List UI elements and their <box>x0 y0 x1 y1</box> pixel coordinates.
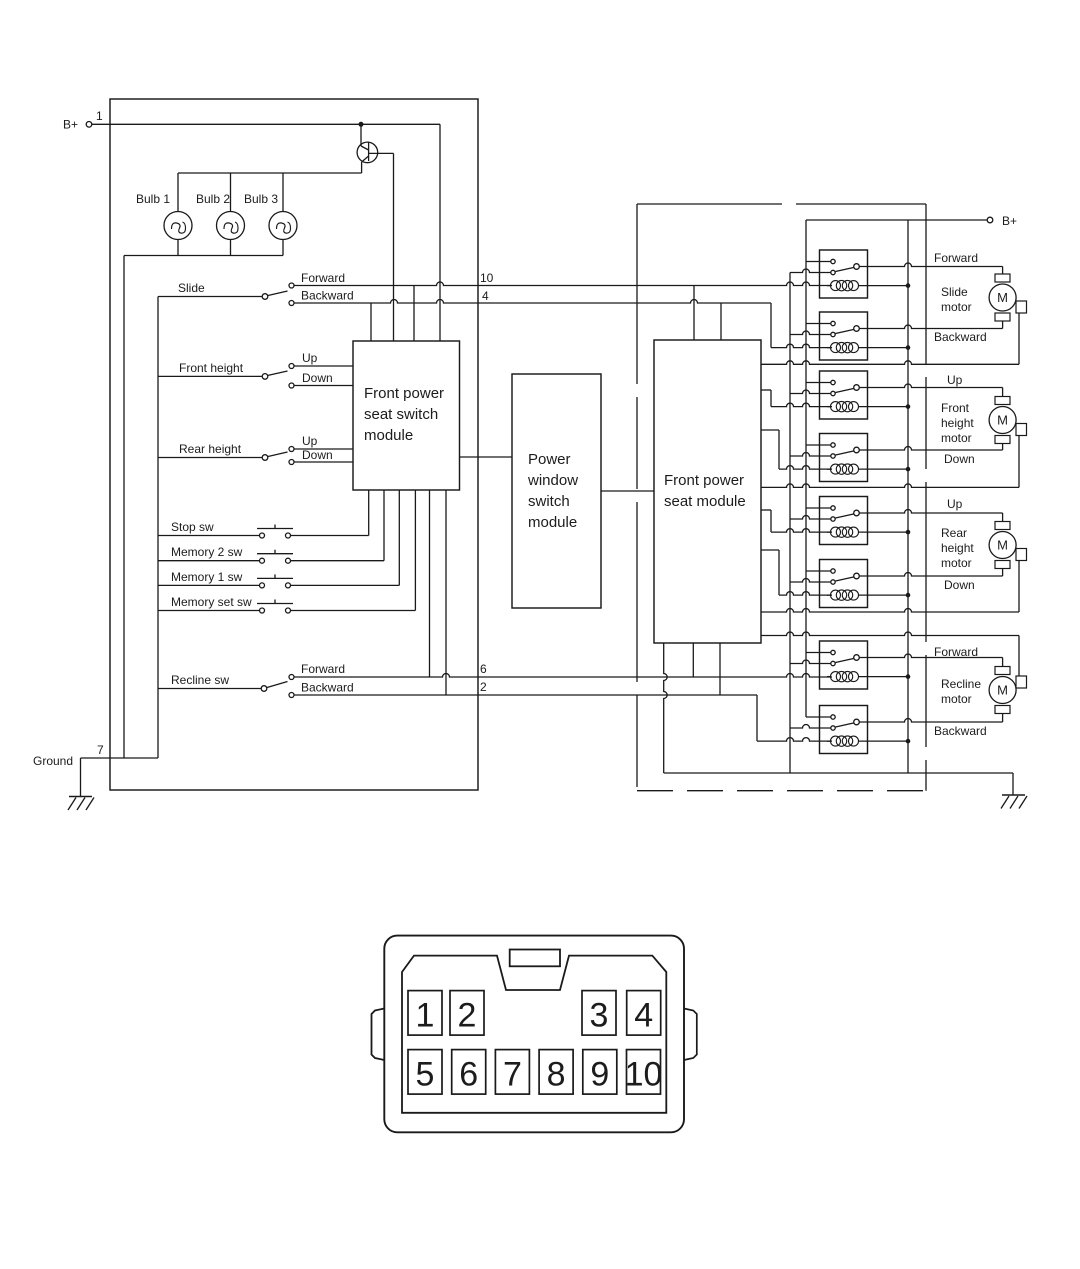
wire - backward drop to switch module <box>370 303 372 341</box>
svg-text:Backward: Backward <box>934 330 987 344</box>
svg-text:10: 10 <box>480 271 494 285</box>
pin 2 cavity <box>450 991 484 1036</box>
wire - U3 to relay K3 coil <box>761 390 832 407</box>
wire - bulb supply bus <box>178 172 362 174</box>
wire - motor terminal drop <box>1002 513 1004 522</box>
wire - relay K6 output to motor <box>859 573 1002 576</box>
svg-text:Down: Down <box>944 452 975 466</box>
wire - forward drop to seat module <box>693 286 695 341</box>
svg-text:Down: Down <box>944 578 975 592</box>
svg-text:M: M <box>997 683 1008 698</box>
svg-text:Bulb 3: Bulb 3 <box>244 192 278 206</box>
svg-text:Forward: Forward <box>301 662 345 676</box>
pin 9 cavity <box>583 1050 617 1095</box>
wire - B+ relay supply bus <box>806 220 987 717</box>
pin 3 cavity <box>582 991 616 1036</box>
pin 6 cavity <box>452 1050 486 1095</box>
svg-text:window: window <box>527 472 578 489</box>
pin 7 cavity <box>495 1050 529 1095</box>
svg-text:3: 3 <box>590 997 609 1035</box>
svg-text:Backward: Backward <box>934 724 987 738</box>
svg-text:9: 9 <box>590 1056 609 1094</box>
connector - 10 pin (view) <box>372 936 697 1133</box>
wire - relay K7 output to motor <box>859 654 1002 658</box>
svg-text:Front power: Front power <box>364 385 444 402</box>
svg-text:Forward: Forward <box>934 645 978 659</box>
svg-text:4: 4 <box>482 289 489 303</box>
svg-text:Ground: Ground <box>33 754 73 768</box>
switch - Memory 1 sw <box>158 490 399 588</box>
node B+ (right battery terminal) <box>987 214 1017 228</box>
wire - front height down to module <box>295 385 354 387</box>
switch - Memory set sw <box>158 490 415 613</box>
svg-text:Front height: Front height <box>179 361 244 375</box>
svg-text:Bulb 2: Bulb 2 <box>196 192 230 206</box>
svg-text:Up: Up <box>302 434 318 448</box>
wire - motor terminal drop <box>1002 569 1004 577</box>
svg-text:4: 4 <box>634 997 653 1035</box>
svg-text:7: 7 <box>97 743 104 757</box>
wire - slide forward (pin 10) to relay K1 coil <box>295 282 833 285</box>
label Up (rear height) <box>302 434 318 448</box>
svg-text:height: height <box>941 541 974 555</box>
svg-text:2: 2 <box>458 997 477 1035</box>
label Backward <box>934 724 987 738</box>
wire - motor terminal drop <box>1002 714 1004 723</box>
wire - relay ground bus <box>789 273 791 774</box>
svg-text:Backward: Backward <box>301 289 354 303</box>
wire - rear height motor sense line <box>761 560 1019 612</box>
svg-text:M: M <box>997 413 1008 428</box>
svg-text:1: 1 <box>96 109 103 123</box>
svg-text:motor: motor <box>941 692 972 706</box>
svg-text:motor: motor <box>941 300 972 314</box>
wire - B+ feed line <box>92 122 440 126</box>
svg-text:Memory set sw: Memory set sw <box>171 595 252 609</box>
label Backward (recline switch) <box>301 681 354 695</box>
pin 8 cavity <box>539 1050 573 1095</box>
wire - outer switch assembly box <box>110 99 478 790</box>
svg-text:Forward: Forward <box>934 251 978 265</box>
svg-text:motor: motor <box>941 431 972 445</box>
wire - recline backward riser to switch module <box>445 490 447 695</box>
svg-text:10: 10 <box>625 1056 663 1094</box>
bulb B2 <box>196 173 245 256</box>
wire - U3 to relay K6 coil <box>761 550 832 595</box>
wire - ground lead (pin 7) <box>81 743 159 797</box>
label Slide motor <box>941 285 972 314</box>
wire - U3 pin to recline backward line <box>719 643 721 695</box>
wire - U3 pin to recline forward line <box>692 643 694 677</box>
svg-text:seat module: seat module <box>664 493 746 510</box>
wire - backward drop to seat module <box>720 303 722 340</box>
svg-text:Memory 2 sw: Memory 2 sw <box>171 545 243 559</box>
switch - Stop sw <box>158 490 369 538</box>
wire - relay K5 output to motor <box>859 510 1002 513</box>
svg-text:6: 6 <box>459 1056 478 1094</box>
svg-text:2: 2 <box>480 680 487 694</box>
svg-text:M: M <box>997 290 1008 305</box>
label Down <box>944 578 975 592</box>
wire - recline motor sense line <box>761 632 1019 676</box>
relay K8 <box>790 706 910 754</box>
wire - motor terminal drop <box>1002 444 1004 451</box>
svg-text:Up: Up <box>947 497 963 511</box>
pin 10 cavity <box>625 1050 663 1095</box>
motor M4 - Recline motor <box>989 667 1026 714</box>
label Up (front height) <box>302 351 318 365</box>
wire - recline forward riser to switch module <box>429 490 431 677</box>
label Down <box>944 452 975 466</box>
svg-text:5: 5 <box>416 1056 435 1094</box>
wire - relay K8 output to motor <box>859 719 1002 723</box>
pin 5 cavity <box>408 1050 442 1095</box>
label pin 2 <box>480 680 487 694</box>
svg-text:Slide: Slide <box>941 285 968 299</box>
transistor Q1 <box>357 124 378 173</box>
svg-text:Stop sw: Stop sw <box>171 520 214 534</box>
label Forward (slide switch) <box>301 271 345 285</box>
motor M2 - Front height motor <box>989 397 1026 444</box>
wire - relay coil return bus <box>907 220 909 773</box>
svg-text:switch: switch <box>528 493 570 510</box>
svg-text:B+: B+ <box>63 118 78 132</box>
svg-text:Up: Up <box>947 373 963 387</box>
wire - recline backward (pin 2) to relay K8 coil <box>295 695 833 741</box>
label pin 6 <box>480 662 487 676</box>
node B+ (left battery terminal, pin 1) <box>63 109 103 132</box>
switch - Front height <box>158 361 294 388</box>
label Ground <box>33 754 73 768</box>
switch - Rear height <box>158 442 294 465</box>
svg-text:Slide: Slide <box>178 281 205 295</box>
svg-text:M: M <box>997 538 1008 553</box>
wire - rear height up to module <box>295 448 354 450</box>
relay K7 <box>790 641 910 689</box>
wire - dashed seat assembly boundary <box>637 204 926 791</box>
svg-text:module: module <box>528 514 577 531</box>
label Recline motor <box>941 677 981 706</box>
label Forward (recline switch) <box>301 662 345 676</box>
svg-text:Down: Down <box>302 371 333 385</box>
svg-text:B+: B+ <box>1002 214 1017 228</box>
svg-text:Power: Power <box>528 451 571 468</box>
wire - relay K4 output to motor <box>859 447 1002 450</box>
relay K5 <box>790 497 910 545</box>
bulb B3 <box>244 173 297 256</box>
motor M3 - Rear height motor <box>989 522 1026 569</box>
wire - transistor base to module <box>369 153 394 341</box>
switch - Recline <box>158 673 294 698</box>
wire - motor terminal drop <box>1002 267 1004 275</box>
bulb B1 <box>136 173 192 256</box>
wire - recline forward (pin 6) to relay K7 coil <box>295 674 833 678</box>
wire - slide backward (pin 4) to relay K2 coil <box>295 300 833 348</box>
label pin 4 <box>482 289 489 303</box>
wire - B+ drop to switch module (top pin) <box>439 124 441 341</box>
wire - U3 to relay K4 coil <box>761 430 832 469</box>
wire - motor terminal drop <box>1002 322 1004 329</box>
svg-text:1: 1 <box>416 997 435 1035</box>
ground (right) <box>1001 795 1027 809</box>
svg-text:Rear: Rear <box>941 526 967 540</box>
wire - bulb return bus <box>124 256 283 759</box>
svg-text:Down: Down <box>302 448 333 462</box>
wire - relay K1 output to motor <box>859 263 1002 267</box>
wire - front height up to module <box>295 365 354 367</box>
label Up (Rear height motor) <box>947 497 963 511</box>
wire - switch common ground bus <box>157 297 159 759</box>
svg-text:module: module <box>364 427 413 444</box>
wire - U2 to front power seat module <box>601 490 654 492</box>
wire - motor terminal drop <box>1002 388 1004 397</box>
relay K2 <box>790 312 910 360</box>
wire - motor terminal drop <box>1002 658 1004 667</box>
wire - relay K3 output to motor <box>859 384 1002 387</box>
label pin 10 <box>480 271 494 285</box>
svg-text:8: 8 <box>547 1056 566 1094</box>
relay K1 <box>790 250 910 298</box>
wire - slide motor sense line <box>761 313 1019 365</box>
wire - U3 ground pin to chassis bus <box>664 643 668 773</box>
svg-text:Backward: Backward <box>301 681 354 695</box>
label Front height motor <box>941 401 974 445</box>
svg-text:7: 7 <box>503 1056 522 1094</box>
motor M1 - Slide motor <box>989 274 1026 321</box>
svg-text:motor: motor <box>941 556 972 570</box>
svg-text:height: height <box>941 416 974 430</box>
pin 1 cavity <box>408 991 442 1036</box>
wire - forward drop to switch module <box>413 286 415 342</box>
wire - relay K2 output to motor <box>859 325 1002 329</box>
svg-text:Memory 1 sw: Memory 1 sw <box>171 570 243 584</box>
svg-text:Front power: Front power <box>664 472 744 489</box>
relay K4 <box>790 434 910 482</box>
label Rear height motor <box>941 526 974 570</box>
switch - Memory 2 sw <box>158 490 384 563</box>
label Backward <box>934 330 987 344</box>
relay K3 <box>790 371 910 419</box>
svg-text:Up: Up <box>302 351 318 365</box>
module U2 - Power window switch module <box>512 374 601 608</box>
svg-text:Forward: Forward <box>301 271 345 285</box>
svg-text:Rear height: Rear height <box>179 442 242 456</box>
svg-text:Recline: Recline <box>941 677 981 691</box>
label Forward (Recline motor) <box>934 645 978 659</box>
svg-text:Front: Front <box>941 401 970 415</box>
wire - U1 to power window switch module <box>460 456 513 458</box>
svg-text:6: 6 <box>480 662 487 676</box>
label Forward (Slide motor) <box>934 251 978 265</box>
wire - rear height down to module <box>295 461 354 463</box>
svg-text:seat switch: seat switch <box>364 406 438 423</box>
switch - Slide <box>158 281 294 306</box>
label Down (front height) <box>302 371 333 385</box>
svg-text:Bulb 1: Bulb 1 <box>136 192 170 206</box>
module U1 - Front power seat switch module <box>353 341 460 490</box>
wire - chassis ground bus (bottom) <box>664 773 1013 795</box>
label Up (Front height motor) <box>947 373 963 387</box>
ground (left) <box>68 797 94 811</box>
pin 4 cavity <box>627 991 661 1036</box>
label Down (rear height) <box>302 448 333 462</box>
relay K6 <box>790 560 910 608</box>
svg-text:Recline sw: Recline sw <box>171 673 229 687</box>
wire - front height motor sense line <box>761 435 1019 487</box>
wire - U3 to relay K5 coil <box>761 510 832 532</box>
label Backward (slide switch) <box>301 289 354 303</box>
module U3 - Front power seat module <box>654 340 761 643</box>
